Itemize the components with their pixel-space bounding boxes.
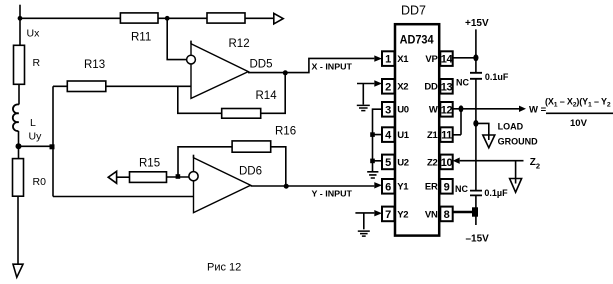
svg-text:8: 8 bbox=[444, 209, 450, 221]
svg-text:13: 13 bbox=[441, 81, 453, 93]
svg-text:NC: NC bbox=[455, 184, 468, 194]
svg-text:6: 6 bbox=[385, 181, 391, 193]
svg-text:Ux: Ux bbox=[27, 28, 41, 40]
svg-text:LOAD: LOAD bbox=[498, 122, 524, 132]
svg-text:1: 1 bbox=[385, 54, 391, 66]
svg-text:10: 10 bbox=[441, 157, 453, 169]
svg-text:0.1uF: 0.1uF bbox=[485, 72, 509, 82]
svg-text:U1: U1 bbox=[397, 130, 410, 141]
svg-text:DD7: DD7 bbox=[401, 4, 426, 18]
svg-text:2: 2 bbox=[385, 81, 391, 93]
svg-text:11: 11 bbox=[441, 130, 452, 142]
svg-text:AD734: AD734 bbox=[400, 34, 435, 46]
svg-text:Uy: Uy bbox=[29, 131, 43, 143]
svg-text:0.1µF: 0.1µF bbox=[484, 188, 508, 198]
svg-text:W =: W = bbox=[529, 105, 547, 116]
svg-text:R11: R11 bbox=[131, 32, 151, 44]
svg-text:Y - INPUT: Y - INPUT bbox=[312, 189, 353, 199]
svg-text:+15V: +15V bbox=[465, 18, 489, 29]
svg-text:DD6: DD6 bbox=[239, 166, 262, 178]
svg-text:X2: X2 bbox=[397, 82, 408, 93]
svg-text:Рис 12: Рис 12 bbox=[207, 262, 241, 274]
svg-text:10V: 10V bbox=[570, 118, 588, 129]
svg-text:W: W bbox=[429, 105, 438, 116]
svg-text:14: 14 bbox=[441, 54, 454, 66]
svg-text:U2: U2 bbox=[397, 157, 409, 168]
svg-text:L: L bbox=[30, 117, 36, 129]
svg-text:3: 3 bbox=[385, 104, 391, 116]
svg-text:R15: R15 bbox=[139, 158, 160, 170]
svg-text:U0: U0 bbox=[397, 105, 409, 116]
svg-text:Y2: Y2 bbox=[397, 209, 408, 220]
svg-text:R13: R13 bbox=[84, 59, 105, 71]
svg-text:Z2: Z2 bbox=[427, 157, 438, 168]
svg-text:X1: X1 bbox=[397, 54, 409, 65]
svg-text:VN: VN bbox=[425, 209, 438, 220]
svg-text:DD: DD bbox=[424, 82, 438, 93]
svg-text:–15V: –15V bbox=[466, 234, 490, 245]
svg-text:X - INPUT: X - INPUT bbox=[312, 62, 353, 72]
svg-text:ER: ER bbox=[425, 182, 438, 193]
svg-text:R0: R0 bbox=[33, 176, 47, 188]
svg-text:R16: R16 bbox=[275, 126, 296, 138]
svg-text:GROUND: GROUND bbox=[498, 137, 538, 147]
svg-text:Y1: Y1 bbox=[397, 182, 409, 193]
svg-text:R14: R14 bbox=[256, 90, 278, 102]
svg-text:DD5: DD5 bbox=[250, 59, 273, 71]
svg-text:VP: VP bbox=[425, 54, 438, 65]
svg-text:12: 12 bbox=[441, 104, 453, 116]
svg-text:5: 5 bbox=[385, 157, 391, 169]
svg-text:Z1: Z1 bbox=[427, 130, 439, 141]
svg-text:7: 7 bbox=[385, 209, 391, 221]
svg-text:NC: NC bbox=[456, 78, 469, 88]
svg-text:9: 9 bbox=[444, 181, 450, 193]
svg-text:R12: R12 bbox=[229, 38, 250, 50]
svg-text:R: R bbox=[33, 57, 41, 69]
